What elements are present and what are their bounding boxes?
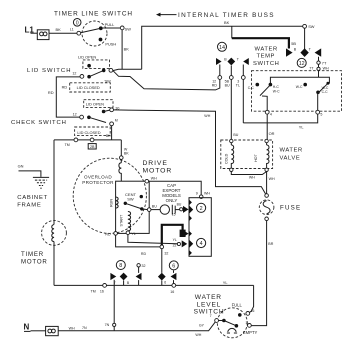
svg-text:7N: 7N [105, 323, 110, 327]
svg-text:MOTOR: MOTOR [143, 168, 173, 175]
connector T pair [315, 48, 322, 61]
svg-text:BU: BU [177, 203, 182, 207]
svg-text:LID SWITCH: LID SWITCH [27, 68, 72, 74]
svg-text:RD: RD [212, 84, 218, 88]
wire N stub [31, 330, 46, 332]
fuse F1 [259, 194, 301, 221]
blade left [260, 85, 270, 111]
svg-text:32: 32 [164, 251, 168, 255]
svg-text:BK: BK [56, 27, 62, 32]
connector N [46, 326, 59, 335]
svg-text:YL: YL [131, 232, 135, 236]
svg-text:CHECK SWITCH: CHECK SWITCH [11, 120, 67, 126]
svg-text:RD: RD [105, 233, 111, 237]
N terminal [24, 323, 31, 332]
hot solenoid [254, 139, 269, 171]
node BU motor [147, 205, 157, 212]
svg-text:32: 32 [142, 264, 146, 268]
svg-text:2: 2 [200, 206, 203, 212]
pin 3 TL [236, 65, 245, 88]
svg-text:LID OPEN: LID OPEN [78, 55, 96, 60]
svg-text:BU: BU [225, 84, 230, 88]
wire valve to fuse [267, 172, 275, 194]
svg-text:GY: GY [199, 324, 205, 328]
svg-text:VALVE: VALVE [280, 155, 301, 161]
terminal 5 [316, 110, 323, 116]
svg-text:FUSE: FUSE [280, 204, 301, 211]
cabinet frame ground [33, 177, 49, 188]
svg-text:CABINET: CABINET [17, 195, 48, 201]
connector 2 [197, 203, 206, 212]
wire TM horizontal [54, 138, 121, 147]
svg-text:16: 16 [100, 289, 104, 293]
node YL motor [126, 231, 136, 236]
timer line switch label [54, 10, 133, 17]
svg-text:LID OPEN: LID OPEN [86, 102, 104, 107]
ground GN wire [18, 164, 41, 177]
wire 7T to switch [309, 64, 329, 77]
connector L1 [37, 30, 49, 40]
wire W BK into motor [120, 140, 130, 160]
svg-text:TM: TM [65, 143, 70, 147]
svg-text:HOT: HOT [254, 153, 258, 162]
svg-text:INTERNAL TIMER BUSS: INTERNAL TIMER BUSS [178, 12, 275, 19]
node TM 16 [91, 284, 107, 294]
contact H-C W-C [269, 83, 280, 94]
svg-text:RUN: RUN [110, 199, 114, 207]
svg-text:4: 4 [270, 112, 272, 116]
svg-text:14: 14 [219, 45, 225, 51]
WLS blade [219, 319, 239, 328]
svg-text:BK: BK [124, 46, 130, 51]
check switch lid open box [84, 100, 113, 108]
internal timer buss label [156, 12, 275, 19]
wire PULL to SW [103, 26, 132, 32]
wire TL YL rail [242, 79, 244, 123]
svg-text:15: 15 [172, 213, 176, 217]
node WH motor [145, 176, 157, 183]
svg-text:PUSH: PUSH [105, 42, 116, 47]
node 32 [160, 245, 168, 255]
wire RD to 32 [116, 235, 160, 256]
svg-text:ONLY: ONLY [166, 198, 178, 203]
cent sw [124, 192, 148, 211]
svg-text:YL: YL [173, 238, 177, 242]
svg-text:5B: 5B [291, 41, 296, 46]
svg-text:12: 12 [72, 72, 76, 76]
wire 5B bold [232, 38, 312, 57]
water valve box [221, 140, 273, 169]
bell diaphragm [227, 328, 237, 333]
wire bus to FULL [250, 285, 254, 312]
node 7T [317, 60, 327, 65]
check switch lid closed box [75, 127, 111, 136]
connector 4 [197, 238, 206, 247]
node RD motor [105, 232, 117, 237]
check switch contacts [73, 107, 120, 126]
wire buss drop [231, 26, 233, 38]
svg-text:9: 9 [196, 191, 198, 195]
svg-text:0: 0 [76, 21, 79, 27]
svg-text:BU: BU [233, 133, 238, 137]
svg-text:4: 4 [200, 241, 203, 247]
wire WH 7N bottom [58, 322, 215, 331]
svg-text:YL: YL [299, 125, 305, 130]
svg-text:WATER: WATER [280, 147, 303, 153]
svg-text:7N: 7N [82, 326, 87, 330]
svg-text:12: 12 [299, 61, 305, 67]
svg-text:LID CLOSED: LID CLOSED [77, 130, 100, 135]
connector pin 6 [171, 271, 177, 286]
svg-text:DRIVE: DRIVE [143, 160, 168, 167]
svg-text:BU: BU [152, 205, 157, 209]
svg-text:LEVEL: LEVEL [197, 302, 222, 309]
svg-text:WH: WH [151, 176, 157, 180]
svg-text:TIMER: TIMER [21, 251, 44, 258]
svg-text:FRAME: FRAME [17, 202, 41, 208]
svg-text:BK: BK [124, 152, 129, 156]
timer motor label [21, 251, 48, 266]
motor switch box [116, 181, 150, 233]
wire SW drop to T [300, 28, 308, 57]
wire YL to 4 [128, 235, 187, 248]
svg-text:RD: RD [62, 84, 68, 89]
water valve label [280, 147, 303, 161]
svg-text:MOTOR: MOTOR [21, 259, 48, 266]
svg-text:SW: SW [125, 27, 132, 32]
svg-text:FULL: FULL [232, 302, 243, 307]
wire rail 12 to check switch [56, 77, 80, 117]
connector pins B T [216, 57, 249, 65]
water temp switch box [252, 71, 342, 112]
wire RD to lid switch [113, 71, 220, 90]
svg-text:SW: SW [127, 197, 134, 202]
svg-text:W-C: W-C [273, 89, 280, 93]
wire 7N drop [105, 285, 116, 330]
wire BR [252, 221, 274, 326]
svg-text:WATER: WATER [195, 294, 222, 301]
svg-text:WH: WH [323, 67, 329, 71]
timer line switch body [77, 21, 116, 47]
main bottom bus [54, 280, 254, 286]
contact FULL [232, 302, 255, 316]
water level switch body [217, 308, 247, 338]
svg-text:PULL: PULL [105, 22, 116, 27]
svg-text:22: 22 [173, 243, 177, 247]
node 16 right [170, 284, 175, 295]
check switch label [11, 120, 67, 126]
run winding [110, 197, 119, 208]
wire M down BK [106, 126, 112, 140]
contact C-C left [248, 83, 259, 90]
connector pin 32 [136, 264, 146, 286]
svg-text:WH: WH [269, 177, 275, 181]
water level switch label [194, 294, 225, 316]
start winding [119, 212, 130, 232]
svg-text:6: 6 [172, 264, 175, 270]
svg-text:RD: RD [141, 252, 147, 256]
svg-text:YL: YL [223, 280, 229, 285]
svg-text:RD: RD [48, 90, 54, 95]
pin 12 RD [212, 65, 222, 88]
svg-text:7: 7 [114, 281, 116, 285]
svg-text:1: 1 [245, 321, 247, 325]
wire YL from 5 [243, 114, 317, 130]
wire timer motor to bus [53, 245, 55, 285]
svg-text:C-C: C-C [248, 86, 255, 90]
svg-text:M: M [115, 119, 118, 123]
wire 30 WH to fuse [114, 110, 266, 194]
wire 32 down [158, 249, 166, 286]
svg-text:WH: WH [204, 191, 210, 195]
cold solenoid [224, 139, 233, 171]
svg-text:SW: SW [308, 24, 315, 29]
svg-text:PROTECTOR: PROTECTOR [82, 180, 114, 185]
svg-text:BK: BK [224, 20, 230, 25]
wire BK L1 to switch [49, 27, 77, 33]
svg-text:TIMER LINE SWITCH: TIMER LINE SWITCH [54, 10, 133, 17]
lid switch contacts [72, 68, 112, 83]
svg-text:GN: GN [18, 164, 24, 169]
svg-text:COLD: COLD [224, 153, 228, 164]
lid switch lid closed box [70, 83, 111, 92]
timer motor rail [53, 140, 55, 221]
L1 terminal label [25, 26, 35, 35]
contact W-C right [296, 83, 307, 89]
connector block 2 4 [189, 198, 211, 257]
cabinet frame label [17, 195, 48, 208]
water temp switch label [253, 47, 279, 67]
svg-text:W-C: W-C [296, 85, 303, 89]
connector pin B [120, 273, 130, 286]
svg-text:TL: TL [236, 84, 240, 88]
svg-text:L1: L1 [70, 28, 74, 32]
svg-text:5: 5 [320, 112, 322, 116]
wire BU down [231, 79, 238, 139]
svg-text:OR: OR [269, 131, 275, 136]
capacitor C1 [151, 203, 183, 217]
connector pin 7 [110, 273, 116, 286]
connector 14 [218, 42, 227, 51]
terminal 7 WLS [195, 314, 218, 337]
wire valve common [231, 172, 266, 180]
connector 2B [88, 138, 96, 149]
svg-text:TEMP: TEMP [257, 54, 276, 60]
svg-text:WH: WH [204, 114, 210, 118]
svg-text:BK: BK [106, 134, 111, 138]
svg-text:N: N [24, 323, 30, 332]
svg-text:6: 6 [164, 280, 166, 284]
water temp switch bus [270, 77, 329, 83]
pin 5B BU [225, 66, 234, 88]
svg-text:LID CLOSED: LID CLOSED [77, 85, 100, 90]
timer cam 0 [73, 19, 81, 27]
wire internal timer buss [113, 20, 305, 71]
connector 12 [297, 58, 306, 67]
wire RD label left [48, 84, 68, 94]
connector 6 [169, 261, 178, 270]
svg-text:EMPTY: EMPTY [243, 330, 258, 335]
wire bold step to 4 [162, 225, 189, 245]
svg-text:7: 7 [210, 314, 212, 318]
svg-text:8: 8 [119, 263, 122, 269]
contact EMPTY [243, 321, 258, 335]
svg-text:16: 16 [170, 290, 174, 294]
svg-text:WH: WH [249, 176, 255, 180]
blade right [316, 82, 329, 111]
overload protector [82, 159, 121, 185]
svg-text:C-C: C-C [322, 90, 329, 94]
wire 9 WH [149, 181, 210, 198]
wire BK down from SW [122, 30, 129, 70]
svg-text:TM: TM [91, 289, 96, 293]
wire L1 stub [31, 32, 38, 34]
lid switch label [27, 68, 72, 74]
svg-text:BR: BR [268, 242, 273, 246]
cap export label [162, 183, 181, 203]
svg-text:WATER: WATER [255, 47, 278, 53]
connector 8 [116, 261, 125, 270]
svg-text:2B: 2B [90, 145, 95, 149]
svg-text:SWITCH: SWITCH [253, 61, 279, 67]
svg-text:7T: 7T [322, 60, 327, 65]
wire OR from 4 [267, 114, 274, 139]
timer motor [42, 221, 67, 246]
node SW buss [303, 24, 315, 29]
svg-text:START: START [119, 214, 123, 226]
svg-text:WH: WH [69, 326, 75, 330]
drive motor label [143, 160, 173, 174]
connector pin 2 arrow [183, 206, 189, 213]
svg-text:12: 12 [73, 112, 77, 116]
svg-text:OVERLOAD: OVERLOAD [84, 175, 112, 180]
lid switch lid open box [78, 55, 110, 69]
drive motor body [73, 158, 146, 233]
terminal 4 [265, 110, 272, 116]
svg-text:WH: WH [195, 333, 201, 337]
